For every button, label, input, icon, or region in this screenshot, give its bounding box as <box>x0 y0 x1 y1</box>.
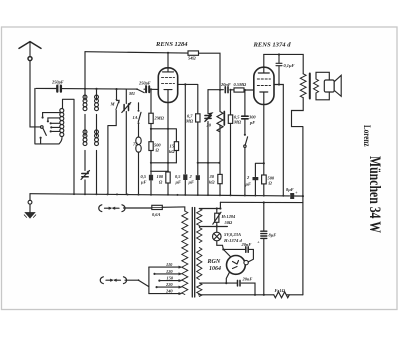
node HT rail junctions <box>302 195 304 197</box>
node anode1 junction <box>167 52 169 54</box>
transformer mains primary <box>182 211 188 295</box>
wire tap 220 <box>158 286 180 288</box>
svg-text:M1: M1 <box>128 91 135 96</box>
svg-text:Lorenz: Lorenz <box>362 125 372 147</box>
svg-text:0.5MΩ: 0.5MΩ <box>234 82 247 87</box>
switch 1A <box>138 103 140 137</box>
svg-text:RGN: RGN <box>207 259 221 265</box>
node 2Mohm bottom tie <box>150 128 152 130</box>
speaker loop <box>316 72 329 100</box>
resistor field coil zigzag <box>274 292 290 298</box>
coil L2a <box>83 95 87 99</box>
transformer mains core <box>192 208 194 298</box>
svg-text:300: 300 <box>248 114 256 119</box>
resistor 54ohm <box>188 51 199 55</box>
svg-text:0,5: 0,5 <box>141 174 147 179</box>
wire coil tap 1 <box>43 113 60 117</box>
svg-text:kΩ: kΩ <box>209 179 215 184</box>
tube RENS1284 cathode <box>164 90 172 103</box>
coil L3a <box>95 95 99 99</box>
tube RENS1374d anode <box>258 54 269 73</box>
tube RENS1284 anode <box>163 53 174 72</box>
ground bus <box>30 194 303 196</box>
node ground bus junctions <box>73 193 284 197</box>
ground <box>29 194 31 201</box>
svg-text:20nF: 20nF <box>242 276 253 281</box>
coil L2b <box>83 130 87 134</box>
switch M1 <box>137 89 144 93</box>
coil 7A wave trap <box>136 137 141 152</box>
transformer secondary winding2 <box>197 228 202 243</box>
svg-text:pF: pF <box>249 120 255 125</box>
wire coil tap 2 <box>48 118 60 120</box>
wire tie line y128.8 <box>151 129 176 142</box>
svg-text:kΩ: kΩ <box>169 149 175 154</box>
svg-text:Fe1Ω: Fe1Ω <box>275 288 286 293</box>
switch tone in 300pF column <box>244 134 246 136</box>
transformer secondary winding3 <box>197 248 202 280</box>
speaker magnet <box>324 80 334 92</box>
choke HF <box>217 90 223 196</box>
resistor 30kohm <box>218 174 222 183</box>
tube RENS1374d cathode <box>260 92 268 105</box>
node screen1 tee <box>184 83 186 85</box>
capacitor C 250pF antenna <box>57 86 61 92</box>
svg-text:2MΩ: 2MΩ <box>154 116 165 121</box>
wire 0.5Mohm-vert column <box>230 90 232 196</box>
resistor 500ohm cathode1 <box>149 142 153 151</box>
svg-text:0,6A: 0,6A <box>152 212 160 217</box>
wire selector bracket <box>148 267 150 294</box>
wire filament top tap <box>199 202 220 208</box>
svg-text:150: 150 <box>167 276 174 281</box>
wire mains to selector <box>125 279 138 281</box>
svg-text:µF: µF <box>188 179 195 184</box>
svg-text:5V,0,23A: 5V,0,23A <box>224 232 241 237</box>
coil L antenna frame <box>35 89 74 194</box>
wire column 2Mohm <box>150 89 152 194</box>
svg-text:240: 240 <box>165 289 173 294</box>
wire grid bus stage2 <box>208 89 254 91</box>
capacitor 20nF rectifier bottom <box>238 280 241 286</box>
wire RGN upper-left lead <box>223 249 230 256</box>
wire lamp to rectifier node <box>217 245 254 262</box>
transformer output primary <box>300 74 306 98</box>
transformer output secondary <box>314 79 319 93</box>
resistor 15kohm <box>174 142 178 151</box>
tube RENS1374d envelope <box>254 67 274 104</box>
capacitor 2uF screen <box>196 175 200 180</box>
resistor 0.7Mohm <box>196 114 200 122</box>
svg-text:MΩ: MΩ <box>185 119 194 124</box>
capacitor 20nF rectifier top <box>246 247 248 253</box>
switch voltage selector arm <box>139 281 149 287</box>
svg-text:100: 100 <box>157 174 164 179</box>
trimmer capacitor 20 <box>205 116 211 119</box>
capacitor C 250pF grid <box>146 86 149 92</box>
plug pickup <box>99 205 125 212</box>
svg-text:50Ω: 50Ω <box>225 220 233 225</box>
wire tap 120 <box>156 273 180 275</box>
coil L antenna winding loops <box>60 109 64 113</box>
transformer secondary winding1 <box>197 209 202 226</box>
svg-text:H:1284: H:1284 <box>221 214 236 219</box>
wire tap 240 <box>149 293 180 295</box>
wire RGN lower-left lead <box>226 272 229 283</box>
resistor 0.5Mohm vertical <box>228 115 232 124</box>
capacitor 20nF coupling <box>225 87 228 93</box>
tube RGN1064 envelope <box>227 256 246 275</box>
wire tie line y162.8 <box>198 162 220 164</box>
capacitor 0.5uF screen <box>183 174 187 180</box>
wire HT line y202.6 <box>220 201 303 203</box>
svg-text:30: 30 <box>209 174 215 179</box>
switch M <box>116 89 118 99</box>
wire right bus lower <box>302 203 304 295</box>
wire coil tap 4 <box>52 126 59 128</box>
svg-text:220: 220 <box>165 282 173 287</box>
resistor 100ohm <box>166 172 170 183</box>
wire 300pF column <box>244 90 246 134</box>
wire coil tap 5 <box>52 130 60 132</box>
svg-text:250pF: 250pF <box>138 80 151 85</box>
capacitor 8uF electrolytic 2 <box>261 231 267 238</box>
resistor 500ohm <box>262 175 267 184</box>
capacitor 0.1uF tone <box>276 55 282 85</box>
capacitor 0.5uF cathode1 <box>149 175 153 181</box>
svg-text:München 34 W: München 34 W <box>366 156 383 233</box>
wire 8uF-2 column <box>263 203 265 295</box>
tube RENS1374d grids <box>257 79 270 86</box>
wire pickup to fuse <box>124 207 152 209</box>
variable capacitor tuning <box>125 89 127 194</box>
wire screen2 <box>274 85 283 197</box>
svg-text:120: 120 <box>166 269 173 274</box>
wire antenna down-lead <box>30 61 41 127</box>
wire RF coil column 1 <box>84 52 86 194</box>
svg-text:20nF: 20nF <box>241 242 252 247</box>
svg-text:20: 20 <box>206 123 212 128</box>
wire tap 110 <box>149 266 180 268</box>
capacitor 2uF cathode <box>253 177 259 180</box>
wire column 0.5uF-2 <box>184 84 186 195</box>
switch wave-band wiper <box>41 126 44 129</box>
fuse 0.6A <box>152 205 163 209</box>
plug mains <box>100 277 126 284</box>
svg-text:RENS 1374 d: RENS 1374 d <box>252 43 290 49</box>
capacitor 300pF <box>242 116 248 119</box>
tube RENS1284 grids <box>162 78 175 84</box>
svg-text:1064: 1064 <box>209 266 221 272</box>
svg-text:µF: µF <box>175 179 182 184</box>
svg-text:250pF: 250pF <box>51 80 64 85</box>
resistor 0.5Mohm grid <box>234 88 244 92</box>
speaker cone <box>334 75 341 96</box>
wire cathode1 column <box>167 103 169 195</box>
wire RF coil column 2 <box>96 89 98 194</box>
svg-text:H:1374 d: H:1374 d <box>223 238 242 243</box>
svg-text:1A: 1A <box>133 115 138 120</box>
node grid bus junctions <box>84 88 86 90</box>
wire cathode tie y162.8 <box>151 162 176 164</box>
antenna <box>19 42 41 61</box>
capacitor 8uF electrolytic bus <box>290 193 294 199</box>
svg-text:µF: µF <box>245 181 252 186</box>
tube RGN1064 filament <box>233 261 239 269</box>
svg-text:RENS 1284: RENS 1284 <box>155 42 188 48</box>
svg-text:0,1µF: 0,1µF <box>284 63 295 68</box>
svg-text:+: + <box>295 190 298 195</box>
trimmer capacitor padding <box>82 174 88 177</box>
svg-text:+: + <box>257 239 260 244</box>
svg-text:8µF: 8µF <box>286 187 294 192</box>
wire from 54ohm to grid2 column <box>199 53 221 90</box>
wire anode2 top <box>264 54 303 73</box>
node switch bottom contact <box>40 139 42 144</box>
coil L3b <box>95 130 99 134</box>
svg-text:µF: µF <box>140 179 147 184</box>
transformer output core <box>309 74 311 99</box>
svg-text:8µF: 8µF <box>269 232 277 237</box>
wire filament mid tap <box>199 226 227 228</box>
svg-text:7A: 7A <box>133 141 138 146</box>
tube RENS1284 envelope <box>158 68 177 103</box>
lamp dial 5V <box>216 226 218 245</box>
svg-text:20nF: 20nF <box>220 82 231 87</box>
wire tap 150 <box>160 280 179 282</box>
wire fuse to transformer <box>162 207 185 211</box>
wire grid bus stage1 <box>36 88 158 89</box>
wire trimmer column <box>207 90 209 196</box>
wire primary return <box>292 98 304 203</box>
wire screen1 <box>178 84 198 195</box>
tube RGN1064 anode pin <box>244 260 248 264</box>
wire rectifier heater line <box>200 283 255 295</box>
wire HT minus line <box>199 294 303 296</box>
svg-text:110: 110 <box>166 262 173 267</box>
svg-text:MΩ: MΩ <box>233 120 242 125</box>
wire top AVC bus <box>85 52 188 53</box>
resistor 2Mohm <box>149 113 153 123</box>
wire 2uF cathode2 column <box>255 163 263 196</box>
svg-text:54Ω: 54Ω <box>188 56 196 61</box>
wire cathode2 column <box>263 105 265 196</box>
transformer secondary winding4 <box>197 283 202 297</box>
wire cathode1 tie <box>151 170 168 172</box>
svg-text:0,5: 0,5 <box>175 174 181 179</box>
wire coil tap 3 <box>52 122 60 124</box>
potentiometer hum 50ohm <box>216 209 218 227</box>
